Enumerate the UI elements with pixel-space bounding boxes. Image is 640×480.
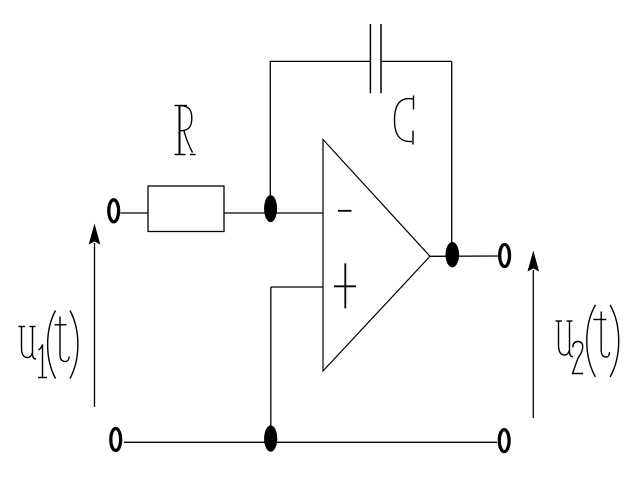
- ground/common terminal left (open circle): [111, 429, 121, 451]
- input terminal (open circle, left): [109, 200, 119, 222]
- node: output junction (filled dot): [446, 242, 460, 267]
- wire: feedback top right horizontal: [381, 60, 452, 62]
- wire: non-inverting input horizontal: [271, 286, 323, 288]
- label R: [175, 106, 196, 155]
- wire: input terminal to resistor: [121, 212, 149, 214]
- label u2(t): [556, 305, 619, 377]
- arrow: input voltage direction (up): [89, 224, 101, 408]
- op-amp non-inverting input marker (plus): [334, 263, 356, 308]
- wire: feedback right vertical: [451, 61, 453, 243]
- label C: [394, 96, 413, 145]
- wire: resistor to inverting input: [224, 212, 323, 214]
- wire: bottom rail: [124, 441, 497, 443]
- resistor R (rectangle body): [148, 186, 224, 232]
- capacitor C (two plates): [369, 24, 371, 93]
- wire: non-inverting input down to bottom rail: [270, 287, 272, 426]
- ground/common terminal right (open circle): [499, 430, 509, 452]
- op-amp inverting input marker (minus): [338, 210, 352, 212]
- node: inverting input junction (filled dot): [264, 195, 277, 222]
- label u1(t): [19, 311, 78, 379]
- arrow: output voltage direction (up): [528, 251, 540, 419]
- node: bottom rail junction (filled dot): [264, 425, 277, 451]
- wire: op-amp output: [430, 255, 499, 257]
- wire: feedback top left horizontal: [270, 60, 371, 62]
- output terminal (open circle, right): [500, 245, 510, 267]
- wire: feedback left vertical: [269, 61, 271, 196]
- op-amp U1 (triangle): [323, 140, 430, 372]
